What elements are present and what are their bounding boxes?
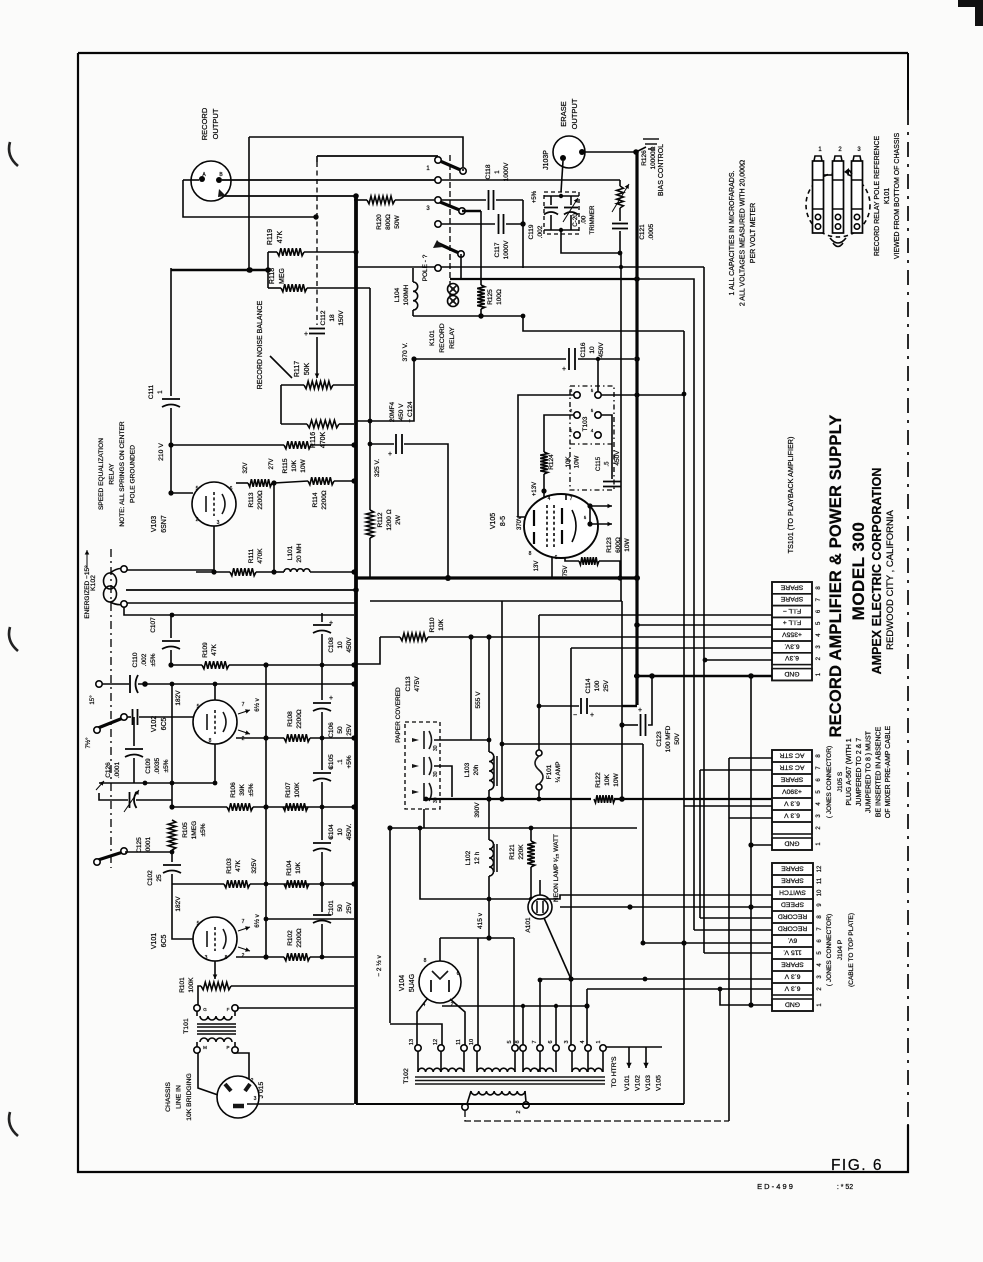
- punch hole mark bottom: [9, 1112, 18, 1136]
- switch contact 15deg: [89, 681, 102, 705]
- node C117 C118: [520, 221, 525, 226]
- svg-text:39K: 39K: [239, 784, 246, 796]
- svg-text:6.3V.: 6.3V.: [784, 642, 799, 649]
- svg-text:.002: .002: [537, 225, 544, 238]
- resistor R103: [224, 858, 250, 888]
- wire row 919: [264, 917, 354, 922]
- transformer T102 core: [403, 1068, 605, 1084]
- resistor R121: [418, 826, 537, 902]
- svg-text:11: 11: [456, 1039, 462, 1045]
- svg-text:RECORD: RECORD: [778, 924, 808, 931]
- svg-text:10W: 10W: [300, 458, 307, 472]
- resistor R109: [202, 642, 229, 669]
- wire neon drop: [544, 918, 571, 979]
- svg-text:1200 Ω: 1200 Ω: [386, 509, 393, 530]
- connector J105 upper strip: [772, 582, 822, 680]
- svg-text:.002: .002: [141, 653, 148, 666]
- label 210V: [158, 443, 165, 461]
- connector J105 lower strip: [772, 746, 844, 850]
- svg-text:370 V.: 370 V.: [402, 342, 409, 361]
- capacitor C113 box: [395, 676, 440, 809]
- wire long x694: [637, 279, 694, 930]
- svg-text:C109: C109: [145, 758, 152, 774]
- capacitor C109: [125, 717, 170, 783]
- svg-text:7: 7: [532, 1040, 538, 1043]
- svg-text:OUTPUT: OUTPUT: [211, 108, 220, 139]
- svg-text:.1: .1: [337, 759, 344, 765]
- svg-text:6.3 V: 6.3 V: [784, 799, 800, 806]
- label V103 6SN7: [151, 515, 168, 533]
- wire C113 top: [424, 637, 471, 740]
- resistor R119: [267, 229, 359, 256]
- svg-text:5: 5: [507, 1040, 513, 1043]
- tube V102: [193, 700, 237, 744]
- svg-text:F.I.L +: F.I.L +: [783, 619, 801, 626]
- svg-text:50V: 50V: [674, 733, 681, 745]
- capacitor C123: [622, 676, 681, 752]
- wire row 613 stub: [123, 614, 125, 616]
- svg-text:R113: R113: [248, 492, 255, 507]
- svg-text:±5%: ±5%: [200, 823, 207, 836]
- svg-text:1000V: 1000V: [503, 240, 510, 259]
- svg-text:600Ω: 600Ω: [615, 537, 622, 553]
- wire top link drop: [248, 137, 250, 270]
- svg-text:C125: C125: [136, 837, 143, 853]
- svg-text:475V: 475V: [414, 676, 421, 692]
- svg-text:BE INSERTED IN ABSENCE: BE INSERTED IN ABSENCE: [875, 726, 882, 817]
- svg-text:6½ v: 6½ v: [254, 697, 261, 711]
- svg-text:220K: 220K: [518, 844, 525, 860]
- svg-text:AC STR: AC STR: [779, 751, 804, 758]
- label ERASE OUTPUT: [559, 98, 579, 129]
- svg-text:.0035: .0035: [154, 757, 161, 774]
- wire pivot drop R125: [480, 211, 482, 285]
- svg-text:RECORD: RECORD: [778, 912, 808, 919]
- T102 winding 3: [515, 978, 559, 1072]
- svg-text:−: −: [573, 712, 577, 719]
- wire erase bus vertical: [635, 152, 638, 705]
- svg-text:2200Ω: 2200Ω: [296, 709, 303, 728]
- connector J103P erase: [553, 136, 585, 168]
- svg-text:R124: R124: [548, 454, 555, 470]
- label POLE-2: [422, 254, 429, 281]
- wire 390V bus: [424, 796, 772, 801]
- svg-text:27V: 27V: [268, 458, 275, 470]
- svg-text:8: 8: [225, 955, 228, 961]
- node x684 394: [682, 392, 687, 397]
- svg-text:8-5: 8-5: [500, 516, 507, 526]
- switch contact pole2 low: [435, 265, 441, 271]
- wire T103 p5 up: [596, 357, 600, 392]
- svg-text:J104 P: J104 P: [837, 939, 844, 960]
- wire heater feeds: [442, 1003, 590, 1045]
- title AMPEX ELECTRIC CORPORATION: [870, 468, 884, 675]
- svg-text:R125: R125: [487, 289, 494, 305]
- svg-text:15°: 15°: [89, 695, 96, 705]
- svg-text:1 ALL CAPACITIES IN MICROF: 1 ALL CAPACITIES IN MICROFARADS.: [729, 171, 736, 296]
- svg-text:R101: R101: [179, 977, 186, 993]
- svg-text:TRIMMER: TRIMMER: [589, 205, 596, 234]
- svg-text:10: 10: [817, 889, 823, 896]
- wire gnd long: [356, 1103, 684, 1105]
- wire x172 684-807: [171, 684, 173, 807]
- FIG. 6 caption: [831, 1157, 883, 1174]
- switch blade speed lower: [94, 848, 175, 865]
- svg-text:6: 6: [548, 1040, 554, 1043]
- svg-text:SWITCH: SWITCH: [779, 888, 806, 895]
- svg-text:A101: A101: [525, 917, 532, 933]
- svg-text:13V: 13V: [534, 561, 540, 572]
- label -2.5V: [375, 955, 383, 977]
- node 370V: [411, 356, 639, 362]
- wire R119 R118 left: [267, 252, 269, 288]
- wire C113 bottom: [423, 809, 425, 828]
- svg-text:LINE IN: LINE IN: [176, 1085, 183, 1109]
- svg-text:10: 10: [337, 641, 344, 649]
- svg-text:C114: C114: [585, 678, 592, 693]
- wire T102 sec out2: [529, 1105, 609, 1121]
- svg-text:6.3 V: 6.3 V: [784, 972, 800, 979]
- wire blade2 drop: [460, 254, 462, 279]
- svg-text:3: 3: [254, 1096, 257, 1102]
- trimmer C-20: [563, 196, 596, 234]
- svg-text:SPARE: SPARE: [780, 775, 803, 782]
- note PLUG A-567: [846, 725, 892, 818]
- wire T101 F out: [237, 1007, 354, 1009]
- resistor R125: [477, 285, 503, 316]
- svg-text:+5%: +5%: [532, 190, 538, 203]
- svg-text:R117: R117: [294, 361, 301, 377]
- svg-text:V105: V105: [490, 513, 497, 529]
- svg-text:GND: GND: [784, 670, 799, 677]
- svg-text:C118: C118: [485, 164, 492, 179]
- arrows V102 pins: [238, 697, 261, 742]
- svg-text:− C124: − C124: [407, 401, 414, 423]
- svg-text:L103: L103: [464, 762, 471, 777]
- svg-text:50: 50: [337, 726, 344, 734]
- wire ACSTR feed2: [700, 770, 772, 918]
- svg-text:555 V: 555 V: [475, 691, 482, 709]
- switch contact pole1: [435, 177, 441, 183]
- wire R113 drop: [273, 483, 275, 572]
- svg-text:+: +: [329, 620, 333, 627]
- svg-text:100K: 100K: [188, 977, 195, 993]
- svg-text:− 2 ½ v: − 2 ½ v: [375, 955, 383, 977]
- svg-text:C110: C110: [132, 652, 139, 667]
- wire switch bus: [356, 266, 704, 268]
- wire long x684: [683, 331, 685, 943]
- svg-text:R108: R108: [287, 711, 294, 727]
- label RECORD OUTPUT: [200, 107, 220, 140]
- svg-text:R107: R107: [285, 782, 292, 798]
- wire 63Vb feed2: [729, 817, 772, 819]
- wire 63V feed1: [571, 648, 772, 1045]
- svg-text:AMPEX ELECTRIC CORPORATION: AMPEX ELECTRIC CORPORATION: [870, 468, 884, 675]
- wire 370V row: [414, 358, 634, 360]
- svg-text:ERASE: ERASE: [559, 101, 568, 126]
- label C110 cap: [132, 652, 157, 667]
- switch blade speed upper: [85, 714, 127, 749]
- transformer T101: [183, 1005, 238, 1053]
- svg-text:OUTPUT: OUTPUT: [570, 98, 579, 129]
- wire V102 plate up: [213, 682, 218, 700]
- resistor R116: [281, 420, 354, 448]
- label SPEED EQUALIZATION RELAY NOTE: [98, 421, 137, 527]
- labels V105 pins: [517, 482, 569, 576]
- svg-text:K101: K101: [884, 188, 891, 204]
- wire x266 long: [265, 665, 267, 957]
- svg-text:SPARE: SPARE: [780, 595, 803, 602]
- svg-text:2 ALL VOLTAGES MEASURED WI: 2 ALL VOLTAGES MEASURED WITH 20,000Ω: [740, 160, 747, 306]
- svg-text:6.3V: 6.3V: [785, 654, 799, 661]
- label CHASSIS LINE IN 10K BRIDGING: [165, 1073, 193, 1121]
- node 665 left: [168, 662, 173, 667]
- svg-text:6.3 V: 6.3 V: [784, 811, 800, 818]
- node mid bus: [445, 575, 640, 581]
- resistor R105: [168, 820, 207, 850]
- svg-text:450V: 450V: [346, 637, 353, 653]
- svg-text:C101: C101: [328, 900, 335, 916]
- svg-text:RECORD: RECORD: [439, 323, 446, 353]
- svg-text:F: F: [227, 1007, 230, 1012]
- svg-text:±5%: ±5%: [248, 783, 255, 796]
- connector J record output: [191, 161, 231, 201]
- wire J015 out: [247, 1103, 354, 1105]
- svg-text:POLE GROUNDED: POLE GROUNDED: [130, 445, 137, 503]
- wire 555V: [475, 637, 489, 752]
- label 182V v101: [175, 896, 182, 912]
- capacitor C121: [612, 208, 655, 255]
- wire V105 cathode bus: [551, 557, 553, 578]
- node 27V: [242, 458, 277, 486]
- svg-text:R112: R112: [377, 512, 384, 527]
- label TO HTRS: [611, 1056, 663, 1091]
- label 415V: [477, 912, 484, 929]
- label RECORD NOISE BALANCE: [257, 300, 292, 389]
- svg-text:R111: R111: [248, 548, 255, 563]
- svg-text:.00: .00: [581, 215, 588, 224]
- svg-text:C123: C123: [656, 731, 663, 747]
- svg-text:450V.: 450V.: [346, 824, 353, 841]
- svg-text:T103: T103: [582, 416, 589, 431]
- svg-text:10000Ω: 10000Ω: [650, 146, 657, 169]
- svg-text:2: 2: [451, 1002, 454, 1008]
- switch blade 3: [426, 197, 465, 214]
- node C112 top: [313, 214, 318, 219]
- svg-text:R106: R106: [230, 782, 237, 798]
- svg-text:+: +: [638, 707, 642, 714]
- svg-text:+: +: [562, 366, 566, 373]
- svg-text:7: 7: [570, 496, 573, 502]
- svg-text:450V: 450V: [614, 450, 621, 466]
- svg-text:6: 6: [555, 555, 558, 561]
- svg-text:TO HTR'S: TO HTR'S: [611, 1056, 618, 1087]
- capacitor C117: [494, 214, 523, 259]
- node V103 grid: [168, 490, 173, 495]
- svg-text:R103: R103: [226, 858, 233, 874]
- svg-text:10K: 10K: [604, 774, 611, 786]
- title REDWOOD CITY CALIFORNIA: [885, 509, 896, 649]
- svg-text:12: 12: [433, 1039, 439, 1045]
- wire ACSTR feed1: [729, 758, 772, 1121]
- svg-text:C111: C111: [148, 384, 155, 399]
- svg-text:+: +: [590, 712, 594, 719]
- svg-text:370V: 370V: [517, 516, 523, 530]
- capacitor C110: [130, 675, 138, 693]
- label 325V: [374, 459, 381, 477]
- resistor R120: [354, 196, 434, 230]
- svg-text:100K: 100K: [294, 782, 301, 798]
- wire V101 grid: [172, 884, 194, 939]
- svg-text:18: 18: [329, 314, 336, 322]
- svg-text:1: 1: [596, 1040, 602, 1043]
- svg-text:800Ω: 800Ω: [385, 214, 392, 230]
- wire speed axis dashed: [110, 549, 112, 868]
- svg-text:25V: 25V: [346, 902, 353, 914]
- svg-text:.5: .5: [604, 461, 611, 467]
- svg-text:+355V: +355V: [782, 631, 802, 638]
- svg-text:NEON LAMP ¹⁄₂₅ WATT: NEON LAMP ¹⁄₂₅ WATT: [553, 834, 560, 902]
- svg-text:RELAY: RELAY: [109, 463, 116, 485]
- tube V104: [419, 958, 461, 1008]
- wire GND drop x751: [750, 676, 752, 1006]
- variable resistor R126: [612, 146, 657, 212]
- node relay bar bus: [634, 276, 640, 282]
- svg-text:10K: 10K: [565, 456, 572, 468]
- wire V104 top: [439, 938, 441, 961]
- label K101 RECORD RELAY: [429, 323, 456, 353]
- capacitor C105: [313, 738, 353, 807]
- wire R117 R116 left: [280, 385, 282, 424]
- capacitor C104: [313, 807, 353, 884]
- svg-text:12 h: 12 h: [474, 851, 481, 864]
- svg-text:C115: C115: [595, 456, 602, 471]
- svg-text:SPARE: SPARE: [781, 876, 804, 883]
- svg-text:2: 2: [242, 736, 245, 742]
- wire C124 row: [368, 419, 448, 578]
- svg-text:325 V.: 325 V.: [374, 459, 381, 477]
- svg-text:POLE - ?: POLE - ?: [422, 254, 429, 281]
- wire 63V feed2: [703, 658, 772, 663]
- svg-text:C113: C113: [405, 676, 412, 691]
- svg-text:12: 12: [817, 865, 823, 872]
- svg-text:5U4G: 5U4G: [409, 974, 416, 992]
- wire V104 pins down: [417, 999, 465, 1045]
- svg-text:2W: 2W: [395, 514, 402, 525]
- svg-text:+: +: [388, 451, 392, 458]
- svg-text:SPARE: SPARE: [781, 864, 804, 871]
- resistor R118: [268, 268, 370, 292]
- label NEON LAMP: [553, 834, 560, 902]
- svg-text:182V: 182V: [175, 896, 182, 912]
- wire V102 cathode row: [236, 737, 284, 739]
- svg-text:(CABLE TO TOP PLATE): (CABLE TO TOP PLATE): [848, 913, 855, 987]
- svg-text:( JONES CONNECTOR): ( JONES CONNECTOR): [826, 914, 833, 986]
- document number 52: [837, 1184, 853, 1191]
- resistor R122: [594, 772, 620, 803]
- wire erase to ground: [585, 151, 634, 153]
- svg-text:C121: C121: [639, 224, 646, 240]
- punch hole mark top: [9, 142, 18, 166]
- wire thick mid bus: [356, 576, 637, 579]
- svg-text:6.3 V: 6.3 V: [784, 984, 800, 991]
- svg-text:R102: R102: [287, 930, 294, 946]
- svg-text:10: 10: [469, 1039, 475, 1045]
- svg-text:GND: GND: [784, 839, 799, 846]
- svg-text:100Ω: 100Ω: [496, 289, 503, 305]
- svg-text:L102: L102: [465, 850, 472, 865]
- svg-text:¼ AMP: ¼ AMP: [555, 762, 562, 783]
- node R110 out: [468, 634, 491, 639]
- capacitor C102: [147, 850, 181, 886]
- svg-text:10W: 10W: [613, 772, 620, 786]
- svg-text:20 MH: 20 MH: [296, 543, 303, 562]
- svg-text:GND: GND: [785, 1000, 800, 1007]
- svg-text:T101: T101: [183, 1018, 190, 1034]
- resistor R124: [540, 415, 574, 494]
- svg-text:10: 10: [589, 346, 596, 354]
- wire 601 row: [370, 600, 622, 602]
- svg-text:470K: 470K: [257, 548, 264, 564]
- wire C117 drop: [522, 224, 524, 268]
- node 684: [142, 681, 356, 687]
- svg-text:10W: 10W: [624, 537, 631, 551]
- svg-text:1: 1: [494, 170, 501, 174]
- node bias 316: [521, 314, 526, 319]
- svg-text:PAPER COVERED: PAPER COVERED: [395, 687, 402, 743]
- svg-text:E D - 4 9 9: E D - 4 9 9: [757, 1182, 793, 1191]
- inductor L102: [465, 799, 497, 876]
- svg-text:20h: 20h: [473, 764, 480, 775]
- wire row 807: [172, 806, 354, 808]
- svg-text:JUMPERED TO 8 ) MUST: JUMPERED TO 8 ) MUST: [866, 730, 873, 813]
- svg-text:6C5: 6C5: [161, 717, 168, 730]
- svg-text:PER VOLT METER: PER VOLT METER: [750, 203, 757, 263]
- wire GND strip3: [718, 987, 772, 1008]
- svg-text:210 V: 210 V: [158, 443, 165, 461]
- svg-text:MODEL 300: MODEL 300: [849, 522, 868, 621]
- svg-text:R122: R122: [595, 772, 602, 788]
- inductor L101: [274, 543, 354, 572]
- resistor R117: [281, 361, 354, 389]
- svg-text:47K: 47K: [277, 230, 284, 243]
- svg-text:+: +: [329, 765, 333, 772]
- resistor R108: [284, 709, 354, 742]
- svg-text:100: 100: [594, 680, 601, 691]
- wire RECORD feed1: [700, 917, 772, 919]
- T102 secondary: [462, 1091, 529, 1114]
- svg-text:8: 8: [515, 1040, 521, 1043]
- svg-text:+13V: +13V: [532, 482, 538, 496]
- wire x502 drop: [500, 601, 505, 799]
- relay K101 reference view: [806, 147, 870, 247]
- relay K102 coil: [90, 566, 127, 607]
- svg-text:V102: V102: [151, 716, 158, 732]
- wire V103 plate row: [236, 482, 248, 484]
- wire row 783: [99, 781, 217, 786]
- transformer T103 box: [570, 386, 614, 490]
- node 210V: [168, 442, 173, 447]
- node R105 top: [169, 804, 174, 809]
- svg-text:V101: V101: [624, 1075, 631, 1091]
- wire p10 drop: [478, 938, 514, 1045]
- svg-text:100MH: 100MH: [403, 284, 410, 305]
- switch contact pole2 feed: [435, 221, 495, 227]
- svg-text:L104: L104: [394, 287, 401, 302]
- wire L102 down: [486, 876, 491, 941]
- svg-text:10W: 10W: [574, 455, 581, 468]
- svg-text:SPEED: SPEED: [781, 900, 804, 907]
